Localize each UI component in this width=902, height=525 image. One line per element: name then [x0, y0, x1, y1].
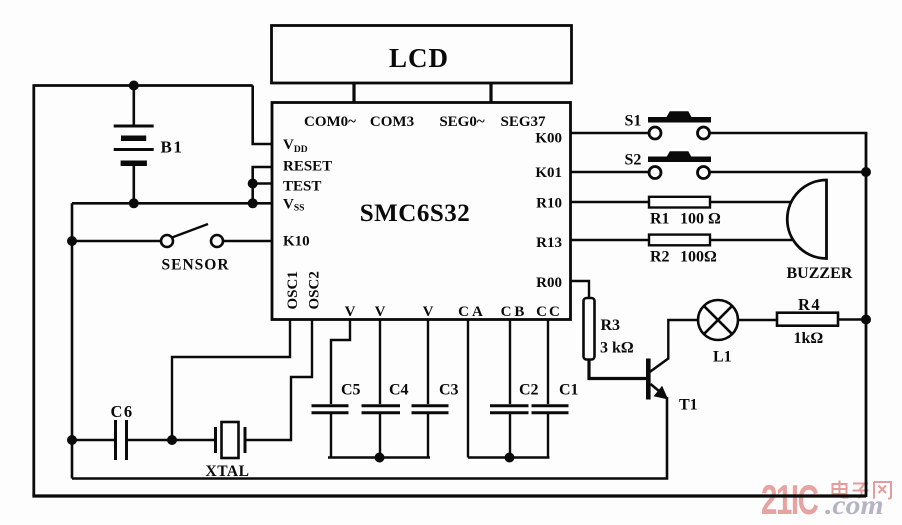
- capacitor C6: [116, 420, 127, 460]
- svg-text:XTAL: XTAL: [206, 463, 250, 480]
- wire K01 to S2: [571, 171, 650, 173]
- svg-text:R10: R10: [536, 196, 562, 212]
- wire left ground vertical: [71, 203, 74, 478]
- capacitor C1: [532, 406, 569, 413]
- node C6 tap junction: [67, 435, 77, 445]
- wire K00 to S1: [571, 132, 650, 134]
- wire R00 to R3: [571, 281, 590, 298]
- wire R10 to R1: [571, 201, 650, 203]
- wire V pin1 to C5: [331, 320, 350, 404]
- svg-text:K10: K10: [283, 234, 310, 250]
- switch SENSOR right contact: [211, 235, 223, 247]
- wire C6 right lead: [128, 439, 172, 441]
- svg-text:C3: C3: [439, 382, 459, 399]
- battery B1 top lead: [133, 86, 136, 125]
- buzzer BUZZER: [787, 180, 826, 259]
- node battery top junction: [129, 81, 139, 91]
- svg-text:RESET: RESET: [283, 159, 332, 175]
- wire C3 bottom: [427, 414, 429, 458]
- switch S2 pushbutton: [648, 151, 711, 178]
- LCD block: [272, 26, 572, 84]
- svg-text:TEST: TEST: [283, 179, 321, 195]
- svg-text:CB: CB: [501, 304, 528, 320]
- svg-text:K01: K01: [535, 165, 562, 181]
- wire R13 to R2: [571, 239, 650, 241]
- transistor T1 emitter with arrow: [651, 384, 663, 394]
- wire outer bottom border: [32, 494, 866, 497]
- svg-text:R3: R3: [601, 317, 621, 334]
- node C4 rail junction: [375, 453, 385, 463]
- svg-text:K00: K00: [535, 131, 562, 147]
- switch SENSOR left contact: [161, 235, 173, 247]
- transistor T1 collector: [649, 358, 669, 373]
- battery B1 plates: [114, 126, 154, 163]
- node battery bottom junction: [129, 198, 139, 208]
- capacitor C5: [312, 406, 349, 413]
- battery B1 bottom lead: [133, 166, 136, 203]
- wire C1 bottom: [547, 414, 549, 458]
- wire RESET to bracket: [253, 167, 272, 203]
- resistor R4: [777, 313, 838, 326]
- svg-text:B1: B1: [161, 138, 184, 157]
- wire V pin2 to C4: [379, 320, 381, 404]
- node R4 right junction: [861, 315, 871, 325]
- svg-text:3 kΩ: 3 kΩ: [600, 340, 634, 357]
- wire LCD to IC connector right: [489, 84, 492, 103]
- wire Vss rail: [72, 202, 272, 205]
- svg-text:C2: C2: [519, 382, 539, 399]
- svg-text:L1: L1: [713, 349, 732, 366]
- wire sensor right to K10: [223, 240, 272, 242]
- wire C6 left lead: [72, 439, 114, 441]
- node TEST junction: [248, 179, 258, 189]
- svg-text:C4: C4: [389, 382, 409, 399]
- svg-text:COM0~: COM0~: [304, 114, 356, 130]
- wire collector up to lamp: [668, 320, 698, 359]
- svg-text:C5: C5: [341, 382, 361, 399]
- svg-text:T1: T1: [679, 397, 698, 414]
- switch S1 pushbutton: [648, 111, 711, 139]
- svg-text:V: V: [345, 304, 356, 320]
- wire LCD to IC connector left: [352, 84, 355, 103]
- wire inner bottom rail (emitter return): [72, 397, 667, 479]
- wire xtal left lead: [172, 439, 214, 441]
- wire Vdd drop from top rail: [253, 86, 272, 145]
- wire CA pin down: [467, 320, 469, 458]
- svg-text:BUZZER: BUZZER: [787, 265, 853, 282]
- svg-text:S1: S1: [625, 113, 642, 130]
- wire cap group rail right: [468, 456, 550, 458]
- switch SENSOR lever: [172, 224, 208, 238]
- wire lamp to R4: [738, 319, 777, 321]
- wire outer right border: [865, 133, 868, 497]
- svg-text:C1: C1: [559, 382, 579, 399]
- wire cap group rail left: [328, 456, 430, 458]
- wire CC pin to C1: [547, 320, 549, 404]
- wire R4 to right border: [838, 318, 866, 320]
- lamp L1: [698, 300, 738, 340]
- svg-text:R2100Ω: R2100Ω: [650, 249, 717, 266]
- svg-text:R4: R4: [798, 295, 821, 314]
- resistor R2: [649, 235, 710, 246]
- svg-text:1kΩ: 1kΩ: [794, 330, 824, 347]
- crystal XTAL: [216, 422, 246, 458]
- wire C2 bottom: [509, 414, 511, 458]
- wire S2 to right border: [710, 171, 867, 173]
- svg-text:R00: R00: [536, 275, 562, 291]
- wire xtal right lead to OSC2: [246, 320, 312, 440]
- wire CB pin to C2: [509, 320, 511, 404]
- svg-text:SMC6S32: SMC6S32: [360, 200, 470, 227]
- capacitor C4: [362, 406, 401, 413]
- node S2 right junction: [861, 167, 871, 177]
- svg-text:SEG37: SEG37: [500, 114, 546, 130]
- svg-text:SENSOR: SENSOR: [162, 257, 230, 274]
- resistor R3: [584, 298, 595, 360]
- transistor T1 base bar: [646, 359, 651, 400]
- wire C4 bottom: [379, 414, 381, 458]
- wire C5 bottom: [330, 414, 332, 458]
- wire outer left border: [32, 84, 35, 496]
- svg-text:SEG0~: SEG0~: [439, 114, 485, 130]
- svg-text:CA: CA: [458, 304, 486, 320]
- capacitor C3: [412, 406, 449, 413]
- wire outer top rail (battery + to Vdd): [34, 84, 253, 87]
- svg-text:R13: R13: [536, 235, 562, 251]
- svg-text:LCD: LCD: [389, 43, 449, 73]
- svg-text:COM3: COM3: [370, 114, 414, 130]
- wire R2 to buzzer: [710, 239, 792, 241]
- watermark dianziwang glyphs: [833, 481, 892, 499]
- node C2 rail junction: [505, 453, 515, 463]
- node bracket-Vss junction: [248, 198, 258, 208]
- node sensor tap junction: [67, 236, 77, 246]
- wire sensor left: [72, 240, 161, 242]
- wire TEST to bracket: [253, 182, 272, 185]
- wire S1 to right border: [710, 132, 868, 134]
- svg-text:CC: CC: [536, 304, 562, 320]
- svg-text:21IC: 21IC: [761, 476, 819, 524]
- svg-text:R1100 Ω: R1100 Ω: [650, 211, 721, 228]
- wire OSC1 to xtal junction: [172, 320, 290, 440]
- capacitor C2: [490, 406, 529, 413]
- svg-text:OSC1: OSC1: [285, 271, 301, 309]
- svg-text:V: V: [423, 304, 434, 320]
- resistor R1: [649, 197, 710, 208]
- svg-text:OSC2: OSC2: [307, 271, 323, 309]
- node xtal-osc1 junction: [167, 435, 177, 445]
- IC U1 SMC6S32: [272, 103, 571, 320]
- wire V pin3 to C3: [427, 320, 429, 404]
- svg-text:V: V: [375, 304, 386, 320]
- svg-text:S2: S2: [625, 152, 642, 169]
- svg-text:C6: C6: [111, 402, 134, 421]
- wire R3 to base: [589, 360, 646, 379]
- wire R1 to buzzer: [710, 201, 792, 203]
